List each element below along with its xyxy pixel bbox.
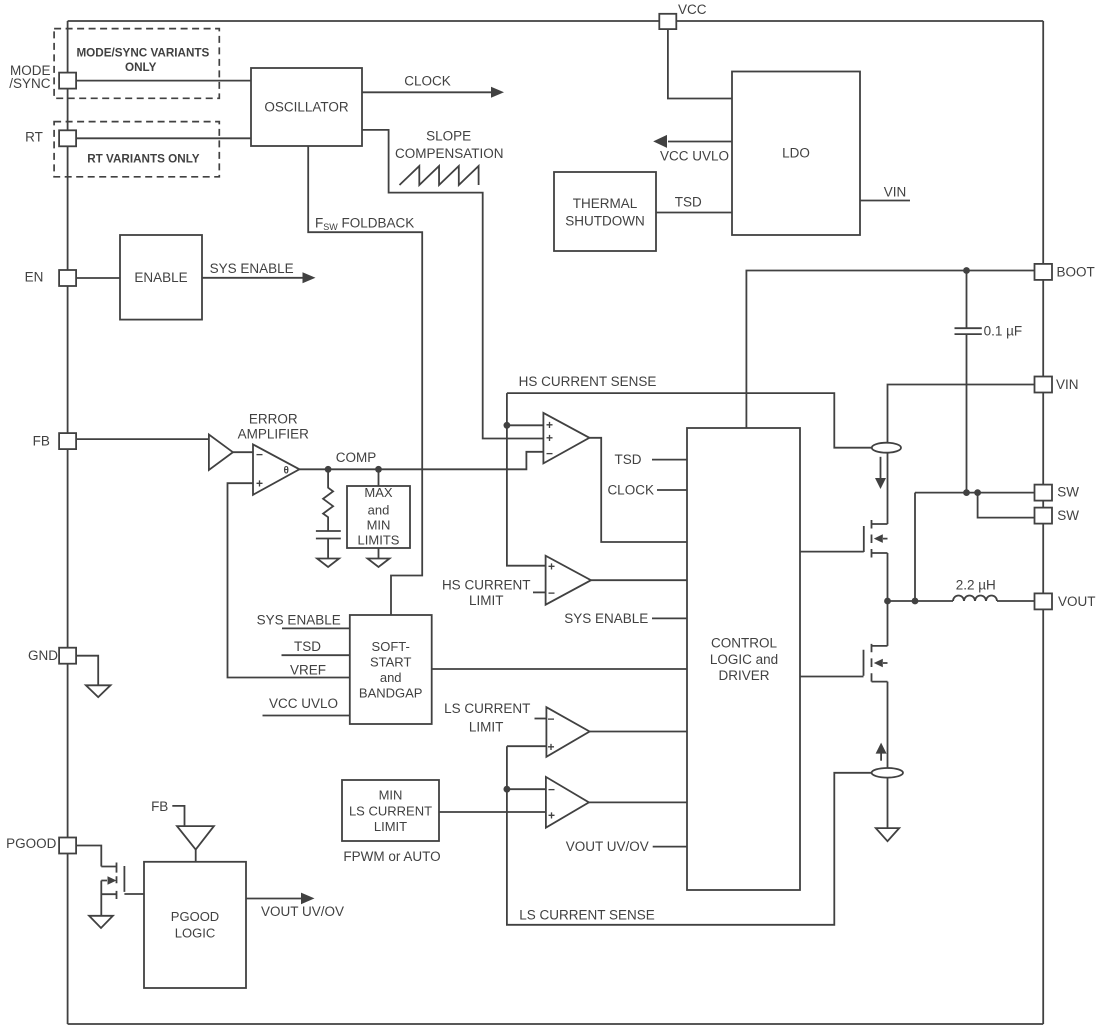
svg-text:ENABLE: ENABLE: [134, 270, 187, 285]
svg-text:LS CURRENT: LS CURRENT: [349, 804, 432, 819]
svg-text:RT VARIANTS ONLY: RT VARIANTS ONLY: [87, 153, 200, 166]
svg-text:SYS ENABLE: SYS ENABLE: [210, 261, 294, 276]
svg-text:RT: RT: [25, 130, 43, 145]
svg-text:and: and: [368, 503, 390, 518]
svg-text:LDO: LDO: [782, 146, 810, 161]
svg-text:SLOPE: SLOPE: [426, 128, 471, 143]
svg-text:VOUT UV/OV: VOUT UV/OV: [261, 904, 344, 919]
svg-text:LS CURRENT: LS CURRENT: [444, 701, 530, 716]
svg-text:VIN: VIN: [884, 185, 907, 200]
svg-text:FB: FB: [33, 434, 50, 449]
svg-text:HS CURRENT SENSE: HS CURRENT SENSE: [519, 374, 657, 389]
svg-text:OSCILLATOR: OSCILLATOR: [264, 100, 349, 115]
svg-text:θ: θ: [284, 466, 289, 477]
svg-text:VOUT UV/OV: VOUT UV/OV: [566, 839, 649, 854]
svg-text:AMPLIFIER: AMPLIFIER: [238, 427, 310, 442]
svg-text:LIMIT: LIMIT: [469, 593, 504, 608]
svg-text:+: +: [548, 560, 555, 574]
svg-text:TSD: TSD: [294, 639, 321, 654]
svg-text:LOGIC: LOGIC: [175, 926, 215, 941]
svg-text:MAX: MAX: [364, 485, 393, 500]
svg-text:+: +: [546, 431, 553, 445]
svg-text:LS CURRENT SENSE: LS CURRENT SENSE: [519, 908, 655, 923]
svg-text:GND: GND: [28, 648, 58, 663]
svg-text:SW: SW: [1057, 508, 1079, 523]
svg-text:BANDGAP: BANDGAP: [359, 686, 423, 701]
svg-text:+: +: [548, 740, 555, 754]
svg-text:FPWM or AUTO: FPWM or AUTO: [343, 849, 440, 864]
svg-text:+: +: [256, 477, 263, 491]
svg-text:VIN: VIN: [1056, 377, 1079, 392]
svg-text:LIMIT: LIMIT: [374, 819, 407, 834]
svg-text:VOUT: VOUT: [1058, 594, 1096, 609]
svg-text:VCC: VCC: [678, 2, 707, 17]
svg-text:PGOOD: PGOOD: [171, 909, 219, 924]
svg-text:VREF: VREF: [290, 663, 326, 678]
svg-text:SYS ENABLE: SYS ENABLE: [257, 613, 341, 628]
svg-text:HS CURRENT: HS CURRENT: [442, 578, 531, 593]
svg-text:COMP: COMP: [336, 450, 377, 465]
svg-text:0.1 µF: 0.1 µF: [984, 323, 1023, 338]
svg-text:TSD: TSD: [675, 195, 702, 210]
svg-text:CLOCK: CLOCK: [607, 483, 654, 498]
svg-text:FB: FB: [151, 799, 168, 814]
svg-text:LIMIT: LIMIT: [469, 719, 504, 734]
svg-text:+: +: [546, 418, 553, 432]
svg-text:/SYNC: /SYNC: [9, 76, 51, 91]
svg-text:SYS ENABLE: SYS ENABLE: [564, 611, 648, 626]
svg-text:COMPENSATION: COMPENSATION: [395, 146, 504, 161]
svg-text:LIMITS: LIMITS: [358, 533, 400, 548]
svg-text:CONTROL: CONTROL: [711, 636, 777, 651]
svg-text:MIN: MIN: [379, 788, 403, 803]
svg-text:EN: EN: [25, 270, 44, 285]
svg-text:TSD: TSD: [615, 452, 642, 467]
svg-text:−: −: [548, 712, 555, 726]
svg-text:PGOOD: PGOOD: [6, 836, 57, 851]
svg-text:2.2 µH: 2.2 µH: [956, 578, 996, 593]
svg-text:VCC UVLO: VCC UVLO: [660, 149, 729, 164]
svg-text:ONLY: ONLY: [125, 61, 157, 74]
svg-text:SHUTDOWN: SHUTDOWN: [565, 213, 645, 228]
svg-text:MIN: MIN: [367, 518, 391, 533]
svg-text:SOFT-: SOFT-: [372, 639, 410, 654]
svg-text:MODE/SYNC VARIANTS: MODE/SYNC VARIANTS: [76, 47, 209, 60]
svg-text:+: +: [548, 809, 555, 823]
svg-text:START: START: [370, 655, 411, 670]
svg-text:ERROR: ERROR: [249, 411, 298, 426]
svg-text:SW: SW: [1057, 485, 1079, 500]
svg-text:THERMAL: THERMAL: [573, 196, 638, 211]
svg-text:−: −: [548, 586, 555, 600]
svg-text:VCC UVLO: VCC UVLO: [269, 696, 338, 711]
svg-text:−: −: [548, 783, 555, 797]
svg-text:CLOCK: CLOCK: [404, 73, 451, 88]
svg-text:BOOT: BOOT: [1057, 265, 1095, 280]
svg-text:−: −: [546, 446, 553, 460]
svg-text:and: and: [380, 670, 402, 685]
svg-text:−: −: [256, 448, 263, 462]
svg-text:DRIVER: DRIVER: [718, 668, 769, 683]
svg-text:LOGIC and: LOGIC and: [710, 652, 778, 667]
